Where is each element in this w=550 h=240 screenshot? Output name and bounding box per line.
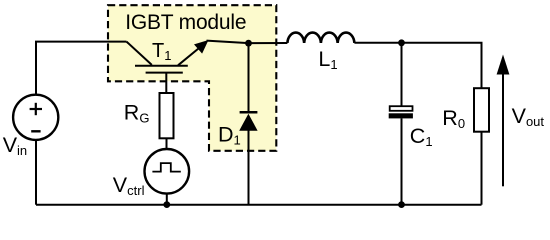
svg-text:IGBT module: IGBT module (125, 11, 246, 34)
svg-text:Vctrl: Vctrl (113, 173, 145, 198)
wire: switch node to D1 cathode (248, 43, 250, 111)
wire: R0 bottom to bottom rail (481, 132, 483, 205)
transistor T1 (127, 40, 209, 93)
svg-text:RG: RG (124, 101, 150, 126)
wire: C1 bottom to bottom rail (401, 118, 403, 204)
wire: output node to C1 top (401, 43, 403, 106)
wire: Vctrl bottom to bottom rail (166, 194, 168, 205)
wire: D1 anode to bottom rail (248, 130, 250, 205)
node: output junction (398, 39, 405, 46)
source Vctrl (145, 149, 190, 194)
svg-text:R0: R0 (442, 106, 465, 131)
wire: RG to Vctrl (166, 138, 168, 149)
svg-text:Vout: Vout (512, 104, 545, 129)
wire: Vin top to T1 emitter (36, 42, 127, 95)
node: switch junction (245, 40, 252, 47)
wire: L1 to output node (354, 42, 401, 44)
diode D1 (239, 112, 257, 131)
wire: Vin bottom to bottom rail (35, 140, 37, 205)
IGBT module box (108, 5, 276, 151)
resistor R0 (474, 88, 489, 132)
voltage arrow Vout (497, 55, 510, 187)
source Vin (13, 95, 58, 140)
inductor L1 (287, 33, 354, 43)
bottom rail wire (36, 204, 482, 206)
capacitor C1 (389, 106, 413, 118)
resistor RG (160, 93, 174, 138)
svg-text:L1: L1 (318, 47, 337, 72)
node: Vctrl bottom junction (163, 201, 170, 208)
node: C1 bottom junction (398, 201, 405, 208)
wire: T1 collector arrow to switch node (207, 41, 288, 44)
svg-text:C1: C1 (410, 124, 433, 149)
wire: output node to R0 top (402, 43, 482, 88)
